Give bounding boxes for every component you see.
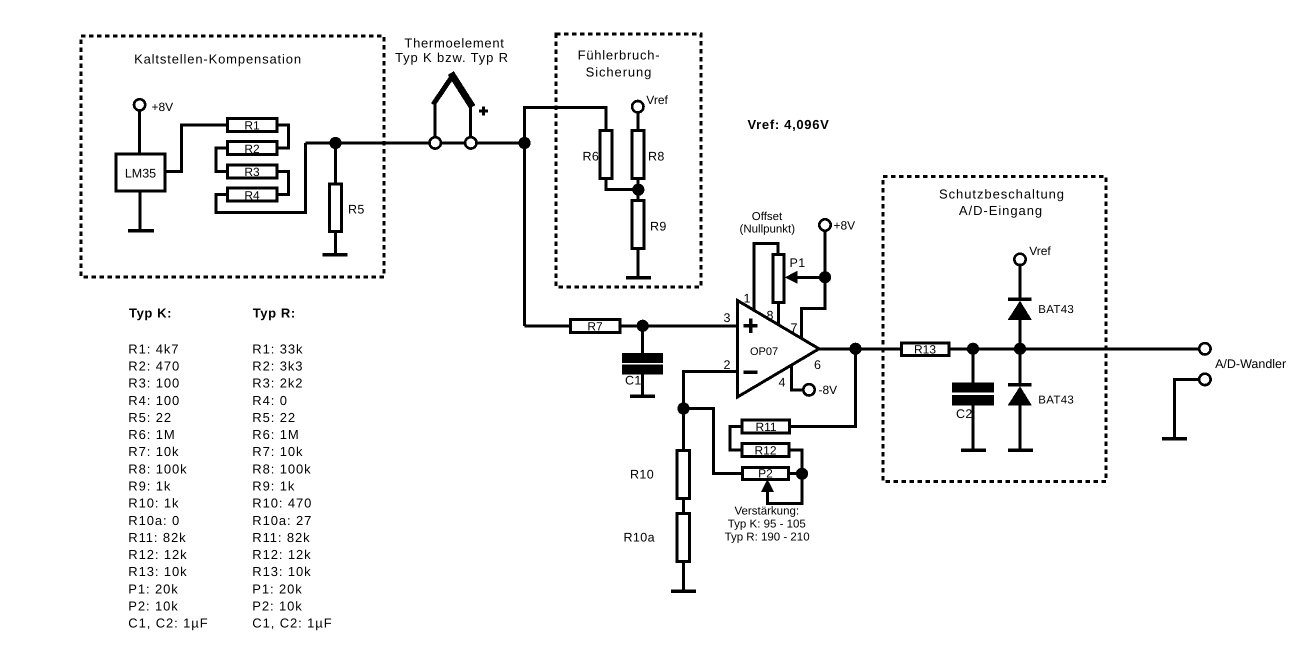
svg-text:Vref: Vref (1029, 244, 1051, 258)
value list Typ K (128, 306, 208, 631)
box Schutzbeschaltung A/D-Eingang (883, 177, 1106, 482)
terminal +8V (op-amp) (819, 219, 830, 230)
svg-text:R10a: 27: R10a: 27 (252, 513, 312, 528)
svg-text:BAT43: BAT43 (1038, 304, 1074, 316)
svg-text:P1: 20k: P1: 20k (128, 581, 178, 596)
svg-text:-8V: -8V (819, 383, 838, 397)
IC LM35 (116, 154, 165, 191)
wire (949, 347, 1199, 350)
svg-text:R7: 10k: R7: 10k (128, 444, 179, 459)
wire P2 right (789, 472, 803, 475)
svg-text:R6: R6 (583, 150, 600, 164)
ground (961, 448, 986, 452)
svg-text:OP07: OP07 (750, 346, 778, 358)
svg-text:P2: P2 (758, 467, 773, 481)
terminal Vref (632, 101, 643, 112)
resistor R2 (228, 142, 278, 155)
svg-text:P1: P1 (790, 256, 806, 270)
resistor R11 (742, 420, 790, 433)
svg-text:8: 8 (767, 309, 774, 323)
resistor R10 (677, 451, 690, 499)
node R13-C2 (968, 344, 977, 353)
wire (334, 143, 337, 184)
resistor R9 (632, 201, 644, 249)
svg-text:Typ K bzw. Typ R: Typ K bzw. Typ R (395, 50, 509, 65)
svg-text:R4: 0: R4: 0 (252, 393, 288, 408)
wire (477, 142, 525, 145)
wire P2 wiper (768, 474, 803, 504)
svg-text:(Nullpunkt): (Nullpunkt) (739, 223, 795, 235)
svg-text:+8V: +8V (152, 100, 174, 114)
svg-text:4: 4 (779, 376, 786, 390)
ground (1008, 448, 1033, 452)
diode D1 BAT43 cathode bar (1008, 297, 1032, 301)
svg-text:R10: 1k: R10: 1k (128, 496, 179, 511)
ground (626, 276, 651, 280)
value list Typ R (252, 306, 332, 631)
resistor R1 (228, 118, 278, 131)
box Fühlerbruch-Sicherung (556, 34, 701, 287)
resistor R6 (600, 131, 612, 179)
svg-text:2: 2 (724, 358, 731, 372)
ground (630, 395, 655, 399)
wire (1019, 349, 1022, 384)
wire (802, 231, 826, 339)
svg-text:LM35: LM35 (125, 167, 156, 181)
wire (636, 112, 639, 131)
svg-text:Fühlerbruch-: Fühlerbruch- (578, 48, 661, 63)
svg-text:R6: 1M: R6: 1M (128, 427, 175, 442)
svg-text:R1: 4k7: R1: 4k7 (128, 341, 179, 356)
wire (216, 143, 306, 213)
wire (682, 562, 685, 590)
wire (637, 179, 640, 202)
svg-text:A/D-Wandler: A/D-Wandler (1215, 357, 1286, 371)
resistor R12 (742, 444, 789, 457)
svg-text:R10a: R10a (624, 531, 655, 545)
svg-text:R7: R7 (587, 320, 603, 334)
capacitor C1 (624, 355, 662, 362)
svg-text:R6: 1M: R6: 1M (252, 427, 299, 442)
wire (441, 142, 465, 145)
node R6-R8-R9 (634, 185, 643, 194)
svg-text:R13: 10k: R13: 10k (252, 564, 311, 579)
wire node to P2 (684, 409, 743, 474)
resistor R8 (632, 131, 644, 179)
svg-text:+8V: +8V (834, 219, 856, 233)
node P1 wiper (820, 273, 829, 282)
terminal +8V (LM35) (134, 99, 145, 110)
wire (606, 179, 639, 190)
wire feedback (790, 349, 856, 427)
node diodes (1015, 344, 1024, 353)
wire (1019, 405, 1022, 449)
terminal thermocouple right (465, 137, 476, 148)
svg-text:R10: R10 (630, 468, 654, 482)
wire (165, 125, 228, 172)
terminal A/D-Wandler ground (1199, 374, 1210, 385)
wire (641, 326, 644, 355)
thermocouple junction leg left (435, 76, 453, 103)
svg-text:1: 1 (744, 292, 751, 306)
resistor R13 (902, 343, 950, 356)
terminal Vref (protection) (1014, 254, 1025, 265)
svg-text:C1, C2: 1µF: C1, C2: 1µF (252, 616, 332, 631)
svg-text:Typ R: 190 - 210: Typ R: 190 - 210 (725, 532, 810, 544)
wire (139, 191, 142, 229)
svg-text:Verstärkung:: Verstärkung: (735, 506, 800, 518)
svg-text:C1, C2: 1µF: C1, C2: 1µF (128, 616, 208, 631)
resistor R10a (677, 514, 690, 562)
svg-text:P1: 20k: P1: 20k (252, 581, 302, 596)
resistor R7 (571, 319, 621, 332)
thermocouple junction leg right (453, 76, 471, 104)
svg-text:P2: 10k: P2: 10k (252, 599, 302, 614)
potentiometer P1 wiper arrow (785, 271, 798, 284)
wire (525, 108, 607, 144)
node R7-C1 (638, 321, 647, 330)
potentiometer P2 (743, 468, 789, 480)
box Kaltstellen-Kompensation (81, 36, 384, 277)
svg-text:R5: 22: R5: 22 (252, 410, 296, 425)
terminal A/D-Wandler signal (1199, 343, 1210, 354)
wire (797, 276, 825, 279)
wire pin8 (777, 303, 780, 326)
svg-text:R9: 1k: R9: 1k (252, 479, 295, 494)
svg-text:R2: 3k3: R2: 3k3 (252, 358, 303, 373)
wire (682, 499, 685, 515)
resistor R5 (330, 184, 342, 232)
svg-text:Sicherung: Sicherung (586, 64, 653, 79)
svg-text:R5: 22: R5: 22 (128, 410, 172, 425)
svg-text:Thermoelement: Thermoelement (404, 36, 504, 51)
wire (972, 403, 975, 449)
svg-text:Vref: 4,096V: Vref: 4,096V (748, 117, 830, 132)
op-amp U1 OP07 (738, 301, 820, 398)
svg-text:R10: 470: R10: 470 (252, 496, 312, 511)
svg-text:R11: 82k: R11: 82k (128, 530, 186, 545)
svg-text:Offset: Offset (752, 211, 783, 223)
svg-text:A/D-Eingang: A/D-Eingang (959, 203, 1043, 218)
diode D1 BAT43 (1008, 301, 1033, 321)
svg-text:C1: C1 (625, 374, 642, 388)
svg-text:Kaltstellen-Kompensation: Kaltstellen-Kompensation (134, 52, 302, 67)
svg-text:R7: 10k: R7: 10k (252, 444, 303, 459)
svg-text:R2: R2 (244, 142, 260, 156)
svg-text:R8: 100k: R8: 100k (128, 461, 187, 476)
wire (637, 249, 640, 277)
diode D2 BAT43 cathode bar (1008, 383, 1032, 387)
node main (331, 138, 340, 147)
svg-text:C2: C2 (956, 407, 973, 421)
wire (216, 148, 228, 171)
capacitor C2 (954, 384, 993, 391)
svg-text:BAT43: BAT43 (1038, 395, 1074, 407)
svg-text:R10a: 0: R10a: 0 (128, 513, 180, 528)
potentiometer P2 wiper arrow (761, 479, 774, 492)
label + polarity (479, 110, 488, 113)
node junction (520, 138, 529, 147)
svg-text:R8: R8 (648, 150, 665, 164)
wire R12 right link (789, 450, 802, 474)
diode D2 BAT43 (1008, 386, 1033, 406)
svg-text:R12: 12k: R12: 12k (252, 547, 311, 562)
wire main node line (306, 142, 430, 145)
svg-text:Schutzbeschaltung: Schutzbeschaltung (939, 187, 1065, 202)
ground (1162, 437, 1187, 441)
svg-text:Vref: Vref (646, 93, 668, 107)
wire (1019, 265, 1022, 298)
resistor R4 (228, 188, 278, 201)
wire (620, 324, 738, 327)
op-amp plus input symbol (743, 324, 757, 328)
wire pin4 (792, 366, 804, 390)
svg-text:R11: 82k: R11: 82k (252, 530, 310, 545)
svg-text:R4: 100: R4: 100 (128, 393, 180, 408)
wire (277, 172, 289, 195)
wire (641, 373, 644, 395)
svg-text:R13: R13 (914, 343, 936, 357)
wire (525, 324, 571, 327)
wire (523, 143, 526, 326)
terminal thermocouple left (430, 137, 441, 148)
svg-text:R4: R4 (244, 188, 260, 202)
wire pin2 inverting input (684, 372, 738, 452)
wire (469, 103, 472, 138)
resistor R3 (228, 165, 278, 178)
svg-text:Typ R:: Typ R: (253, 306, 296, 321)
svg-text:R12: R12 (754, 444, 776, 458)
svg-text:R3: R3 (244, 165, 260, 179)
svg-text:P2: 10k: P2: 10k (128, 599, 178, 614)
node inverting (679, 404, 688, 413)
wire pin1 (754, 244, 778, 311)
svg-text:Typ K:: Typ K: (129, 306, 172, 321)
svg-text:7: 7 (791, 321, 798, 335)
wire (334, 232, 337, 254)
ground (671, 590, 696, 594)
svg-text:R13: 10k: R13: 10k (128, 564, 187, 579)
svg-text:R3: 100: R3: 100 (128, 376, 180, 391)
potentiometer P1 (773, 255, 784, 303)
svg-text:R9: 1k: R9: 1k (128, 479, 171, 494)
svg-text:R11: R11 (755, 420, 776, 434)
terminal -8V (803, 384, 814, 395)
wire (433, 101, 436, 138)
wire (972, 349, 975, 385)
wire (1019, 319, 1022, 349)
wire (277, 125, 289, 148)
op-amp minus input symbol (743, 371, 757, 375)
svg-text:3: 3 (724, 311, 731, 325)
ground (128, 229, 154, 233)
wire (1175, 379, 1200, 437)
node output (851, 344, 860, 353)
svg-text:6: 6 (814, 358, 821, 372)
svg-text:R3: 2k2: R3: 2k2 (252, 376, 303, 391)
ground (323, 253, 348, 257)
wire (138, 110, 141, 154)
svg-text:R2: 470: R2: 470 (128, 358, 180, 373)
wire R11-R12 left link (730, 427, 742, 451)
node P2 right (797, 469, 806, 478)
svg-text:R1: R1 (244, 119, 260, 133)
svg-text:Typ K: 95 - 105: Typ K: 95 - 105 (728, 519, 806, 531)
svg-text:R12: 12k: R12: 12k (128, 547, 187, 562)
svg-text:R1: 33k: R1: 33k (252, 341, 303, 356)
wire output (819, 347, 902, 350)
svg-text:R8: 100k: R8: 100k (252, 461, 311, 476)
svg-text:R9: R9 (650, 220, 667, 234)
svg-text:R5: R5 (348, 203, 365, 217)
